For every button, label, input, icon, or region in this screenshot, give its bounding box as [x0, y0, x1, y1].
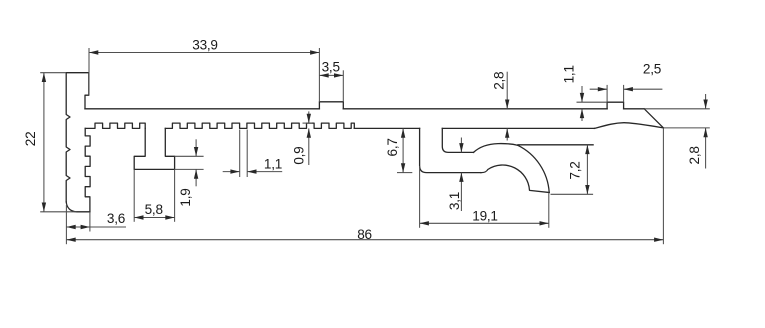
- svg-text:6,7: 6,7: [385, 138, 400, 156]
- svg-text:1,1: 1,1: [561, 65, 576, 83]
- svg-text:19,1: 19,1: [472, 209, 497, 224]
- svg-text:3,1: 3,1: [447, 192, 462, 210]
- svg-text:33,9: 33,9: [192, 37, 217, 52]
- svg-text:7,2: 7,2: [568, 161, 583, 179]
- svg-text:5,8: 5,8: [145, 202, 163, 217]
- svg-text:1,1: 1,1: [264, 156, 282, 171]
- svg-text:22: 22: [23, 132, 38, 147]
- svg-text:1,9: 1,9: [178, 188, 193, 206]
- svg-text:2,5: 2,5: [643, 62, 661, 77]
- svg-text:2,8: 2,8: [687, 146, 702, 164]
- svg-text:2,8: 2,8: [491, 72, 506, 90]
- svg-text:3,6: 3,6: [107, 211, 125, 226]
- svg-text:86: 86: [357, 227, 372, 242]
- svg-text:3,5: 3,5: [322, 60, 340, 75]
- svg-text:0,9: 0,9: [291, 147, 306, 165]
